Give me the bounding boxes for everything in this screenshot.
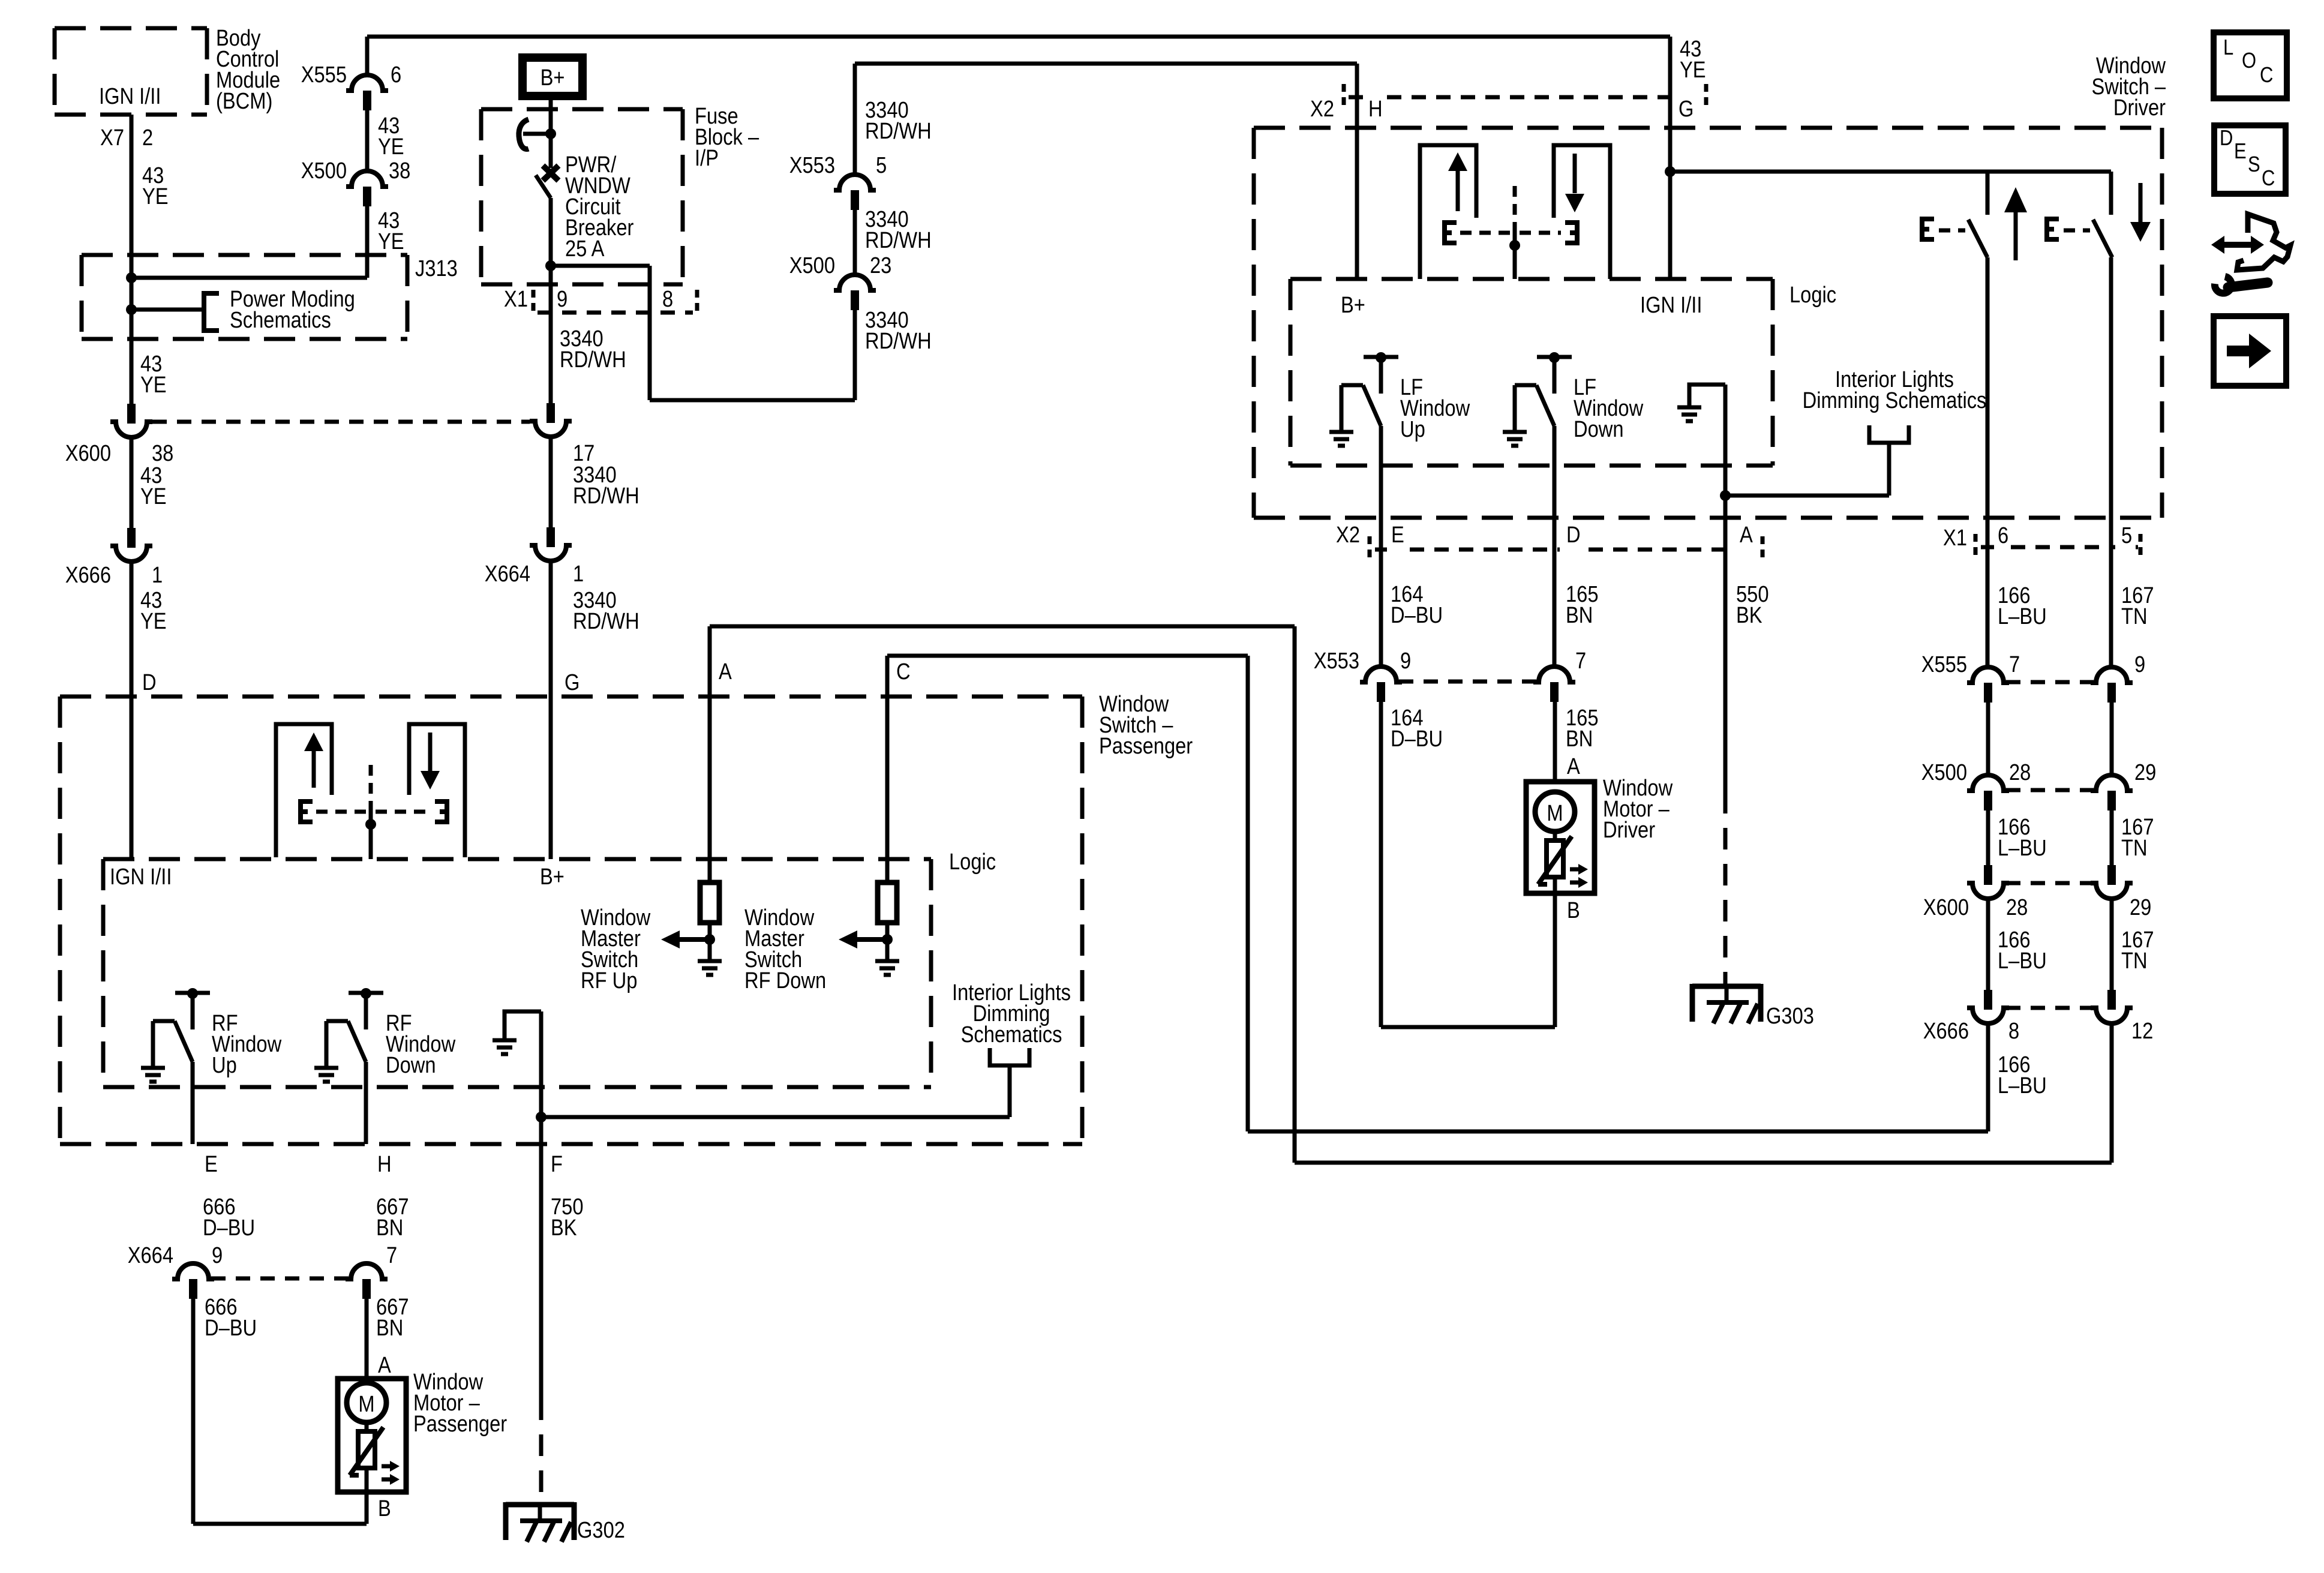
wire: 750 BK to G302 <box>539 1144 544 1398</box>
svg-text:X664: X664 <box>128 1242 173 1268</box>
connector row X1 (driver) <box>1974 534 1978 560</box>
svg-text:TN: TN <box>2121 604 2148 629</box>
connector row X600 dashed line <box>2006 881 2094 885</box>
wire: 167 TN between X600 and X666 <box>2110 897 2114 990</box>
ground G303 <box>1692 984 1761 989</box>
svg-text:Schematics: Schematics <box>961 1022 1062 1047</box>
wire: breaker to X1 pin 9 <box>549 198 553 403</box>
linkage dashed line (driver) <box>1460 231 1510 235</box>
wire: down to passenger switch pin G <box>549 560 553 859</box>
svg-text:TN: TN <box>2121 948 2148 974</box>
connector X600 pin 17 <box>547 403 555 423</box>
wire: B+ into circuit breaker <box>549 100 553 168</box>
wire: pin H riser (3340 RD/WH) <box>1355 64 1359 279</box>
icon: adjust/repair hand with arrow and wrench <box>2237 214 2290 270</box>
linkage centre stub (driver) <box>1513 186 1517 229</box>
connector X666 pin 8 <box>1984 990 1992 1010</box>
motor: Window Motor - Passenger <box>338 1379 406 1492</box>
connector X553 pin 9 <box>1360 667 1402 682</box>
svg-text:H: H <box>377 1151 392 1177</box>
wire: 167 TN long run to passenger pin A <box>2110 1022 2114 1163</box>
svg-text:X555: X555 <box>301 62 347 88</box>
svg-text:Dimming Schematics: Dimming Schematics <box>1803 388 1987 413</box>
svg-text:A: A <box>1567 754 1580 779</box>
ground hook for driver logic IGN <box>1689 385 1725 407</box>
svg-text:X600: X600 <box>65 440 111 466</box>
wire: top bus 43 YE <box>367 35 1670 39</box>
up arrow (driver) <box>1456 170 1460 211</box>
connector X500 pin 28 <box>1967 775 2009 791</box>
svg-text:D–BU: D–BU <box>203 1215 255 1241</box>
svg-text:B+: B+ <box>540 864 565 890</box>
junction dot to interior lights dimming <box>536 1112 547 1122</box>
junction dot to fuse pin 8 <box>545 260 556 271</box>
wire: 43 YE between X600 and X666 <box>130 436 134 528</box>
svg-text:X500: X500 <box>1921 760 1967 785</box>
svg-text:D–BU: D–BU <box>205 1315 257 1341</box>
contact paddle up (driver) <box>1420 145 1476 279</box>
linkage bracket E (passenger) <box>301 801 313 822</box>
wire: 43 YE down to passenger switch pin D <box>130 560 134 859</box>
svg-text:X664: X664 <box>485 561 530 587</box>
connector row X500 dashed line <box>2006 788 2094 792</box>
svg-text:A: A <box>1740 522 1753 548</box>
svg-text:IGN I/II: IGN I/II <box>99 83 161 109</box>
svg-text:Logic: Logic <box>1789 282 1836 308</box>
motor: Window Motor - Driver <box>1526 782 1595 893</box>
svg-text:M: M <box>358 1391 374 1417</box>
connector X600 pin 38 <box>127 404 136 424</box>
wire: branch to up/down switches <box>1670 170 2111 174</box>
svg-text:G: G <box>565 670 580 695</box>
svg-text:O: O <box>2242 49 2256 73</box>
wire: pin C riser to logic <box>885 656 890 882</box>
svg-text:9: 9 <box>557 286 568 312</box>
svg-text:Up: Up <box>212 1052 237 1078</box>
wire: 166 L-BU long run to passenger pin C <box>1986 1022 1990 1131</box>
connector X555 pin 9 <box>2091 667 2133 683</box>
linkage bracket reversed-E (passenger) <box>435 801 447 822</box>
connector row X2 top <box>1342 84 1346 110</box>
svg-text:E: E <box>2234 140 2247 164</box>
svg-text:IGN I/II: IGN I/II <box>110 864 172 890</box>
svg-text:YE: YE <box>142 184 169 209</box>
svg-text:E: E <box>1391 522 1404 548</box>
svg-text:L–BU: L–BU <box>1998 835 2047 861</box>
wire: branch to Power Moding Schematics <box>131 308 203 312</box>
wire: RF down switch to pin H <box>364 1062 368 1144</box>
svg-text:5: 5 <box>876 152 887 178</box>
linkage centre stub (passenger) <box>369 765 373 808</box>
svg-text:Up: Up <box>1400 416 1425 442</box>
wire: 666 D-BU loop to motor B <box>191 1298 196 1524</box>
up arrow (passenger) <box>312 749 316 788</box>
svg-text:YE: YE <box>140 372 167 398</box>
svg-text:C: C <box>2260 64 2273 88</box>
connector X500 pin 29 <box>2091 775 2133 791</box>
connector X600 pin 29 <box>2107 865 2116 885</box>
connector X600 pin 28 <box>1984 865 1992 885</box>
svg-text:38: 38 <box>389 158 410 184</box>
svg-text:RD/WH: RD/WH <box>573 483 639 509</box>
wire: BCM X7-2 down (43 YE) <box>130 115 134 404</box>
wire: 164 D-BU loop to motor B (driver) <box>1379 701 1383 1027</box>
svg-text:RD/WH: RD/WH <box>573 608 639 634</box>
resistor: window master switch RF up <box>700 882 719 923</box>
wire: passenger logic to pin F <box>539 1011 544 1144</box>
connector X664 pin 9 <box>172 1263 214 1279</box>
wire: down contact to X1 pin 5 <box>2109 257 2113 667</box>
ground: master switch RF down <box>875 959 899 963</box>
svg-text:X7: X7 <box>100 125 124 151</box>
svg-text:L–BU: L–BU <box>1998 604 2047 629</box>
svg-text:X500: X500 <box>789 253 835 278</box>
svg-text:H: H <box>1368 96 1383 122</box>
svg-text:5: 5 <box>2121 523 2132 548</box>
power feed box: B+ <box>523 58 582 96</box>
wire: riser to X553-5 and across to driver switch H <box>853 64 857 175</box>
svg-text:X2: X2 <box>1310 96 1334 122</box>
logic box: driver switch Logic <box>1290 277 1773 281</box>
svg-text:(BCM): (BCM) <box>216 88 272 114</box>
wire: 166 L-BU between X600 and X666 <box>1986 897 1990 990</box>
svg-text:G: G <box>1679 96 1694 122</box>
svg-text:RD/WH: RD/WH <box>865 227 932 253</box>
junction dot at breaker top <box>545 128 556 139</box>
contact paddle up (passenger) <box>276 724 332 857</box>
wire: to interior lights bracket (driver) <box>1725 494 1889 498</box>
resistor: window master switch RF down <box>878 882 897 923</box>
svg-text:B: B <box>378 1496 391 1521</box>
linkage E bracket for down contact <box>2047 219 2059 239</box>
svg-text:L: L <box>2223 36 2233 60</box>
junction dot to Power Moding bracket <box>126 304 137 315</box>
svg-text:X2: X2 <box>1336 522 1360 548</box>
wire: branch to pin 8 and over to X500-23 <box>551 264 650 268</box>
contact paddle down (driver) <box>1554 145 1610 279</box>
svg-text:L–BU: L–BU <box>1998 948 2047 974</box>
svg-text:Passenger: Passenger <box>413 1411 507 1437</box>
svg-text:7: 7 <box>1575 648 1586 674</box>
circuit breaker blade <box>536 175 551 198</box>
svg-text:BN: BN <box>1566 602 1593 628</box>
svg-text:YE: YE <box>140 608 167 634</box>
svg-text:29: 29 <box>2134 760 2156 785</box>
connector row X553 dashed line <box>1399 680 1536 684</box>
svg-text:YE: YE <box>378 134 404 160</box>
bracket: interior lights dimming (driver) <box>1869 425 1909 443</box>
svg-text:X553: X553 <box>789 152 835 178</box>
icon: continuation arrow box <box>2214 316 2286 386</box>
svg-text:B: B <box>1567 897 1580 923</box>
wire: 550 BK dashed to G303 <box>1724 792 1728 986</box>
up arrow (driver switch action) <box>2014 211 2018 260</box>
wire: 166 L-BU between X555 and X500 <box>1986 702 1990 775</box>
connector X555 pin 6 <box>346 75 388 91</box>
svg-text:YE: YE <box>140 484 167 509</box>
connector row X1 (fuse block) brackets <box>532 290 536 316</box>
wire: 167 TN between X555 and X500 <box>2110 702 2114 775</box>
connector X555 pin 7 <box>1967 667 2009 683</box>
ground hook for passenger logic B+ <box>505 1011 541 1040</box>
svg-text:A: A <box>378 1352 391 1378</box>
svg-text:25 A: 25 A <box>565 236 605 262</box>
down arrow (driver) <box>1573 154 1577 193</box>
svg-text:RD/WH: RD/WH <box>865 118 932 144</box>
svg-text:X1: X1 <box>504 286 528 312</box>
svg-text:G303: G303 <box>1766 1003 1814 1029</box>
svg-text:Down: Down <box>1574 416 1624 442</box>
svg-text:D: D <box>1566 522 1581 548</box>
svg-text:C: C <box>896 659 911 685</box>
contact paddle down (passenger) <box>409 724 465 857</box>
junction dot on linkage centre (driver) <box>1509 240 1520 251</box>
svg-text:Passenger: Passenger <box>1099 733 1193 759</box>
svg-text:D–BU: D–BU <box>1391 726 1443 752</box>
wire: RF up switch to pin E <box>191 1062 195 1144</box>
svg-text:BK: BK <box>1736 602 1762 628</box>
wire: 43 YE into driver switch pin G <box>1668 37 1673 279</box>
wire: 165 BN to motor A (driver) <box>1553 701 1557 782</box>
svg-text:12: 12 <box>2131 1018 2153 1044</box>
circuit breaker self-reset X mark <box>543 166 559 181</box>
svg-text:Driver: Driver <box>1603 817 1655 843</box>
wire: between X553-5 and X500-23 <box>853 209 857 275</box>
connector X500 pin 38 <box>346 171 388 187</box>
svg-text:1: 1 <box>152 562 163 588</box>
svg-text:X500: X500 <box>301 158 347 184</box>
linkage E bracket for up contact <box>1922 219 1934 239</box>
wire: LF up switch to pin E <box>1379 426 1383 667</box>
connector X666 pin 12 <box>2107 990 2116 1010</box>
wire: pin A riser to logic <box>708 626 712 882</box>
junction dot on 43 YE at J313 <box>126 272 137 283</box>
svg-text:1: 1 <box>573 561 584 587</box>
svg-text:B+: B+ <box>1341 292 1365 318</box>
svg-text:YE: YE <box>1680 57 1706 83</box>
svg-text:X666: X666 <box>65 562 111 588</box>
ground: master switch RF up <box>698 959 722 963</box>
connector X553 pin 7 <box>1533 667 1575 682</box>
svg-text:S: S <box>2248 153 2260 177</box>
connector X664 pin 7 <box>346 1263 388 1279</box>
svg-text:D: D <box>142 670 157 695</box>
svg-text:E: E <box>205 1151 218 1177</box>
svg-text:BN: BN <box>376 1215 403 1241</box>
svg-text:I/P: I/P <box>695 145 719 171</box>
svg-text:29: 29 <box>2130 894 2151 920</box>
svg-text:7: 7 <box>2009 652 2020 677</box>
module box: Body Control Module (BCM), IGN I/II <box>55 26 207 31</box>
connector X664 pin 1 <box>547 527 555 547</box>
switch: RF Window Up <box>175 991 210 995</box>
arrow + junction: master switch RF up output <box>704 934 715 945</box>
connector X666 pin 1 <box>127 528 136 548</box>
down arrow (passenger) <box>428 733 433 773</box>
wire: to interior lights dimming bracket <box>541 1115 1010 1119</box>
svg-text:7: 7 <box>386 1242 397 1268</box>
switch blade: driver window down contact <box>2109 172 2113 215</box>
wire: 43 YE between X555 and X500 <box>365 110 370 171</box>
bracket: Power Moding Schematics <box>204 293 219 331</box>
bracket: interior lights dimming (passenger) <box>990 1048 1029 1065</box>
wire: 3340 RD/WH between X600-17 and X664-1 <box>549 436 553 527</box>
svg-text:X553: X553 <box>1314 648 1359 674</box>
down arrow (driver switch action) <box>2139 183 2143 223</box>
connector row X1 dashed line <box>538 311 693 315</box>
wire: 667 BN to motor A <box>365 1298 369 1379</box>
svg-text:8: 8 <box>662 286 673 312</box>
svg-text:RF Down: RF Down <box>744 968 826 993</box>
svg-text:X600: X600 <box>1923 894 1969 920</box>
svg-text:Driver: Driver <box>2113 95 2166 121</box>
svg-text:IGN I/II: IGN I/II <box>1640 292 1702 318</box>
arrow + junction: master switch RF down output <box>882 934 893 945</box>
svg-text:9: 9 <box>212 1242 223 1268</box>
wire: driver logic to pin A (550 BK) <box>1724 385 1728 792</box>
connector row X555 dashed line <box>2006 680 2094 685</box>
wire: 43 YE into J313 <box>365 206 370 278</box>
svg-text:RD/WH: RD/WH <box>560 347 626 373</box>
circuit breaker CB hook <box>523 132 551 136</box>
wire: 167 TN between X500 and X600 <box>2110 810 2114 865</box>
svg-text:BN: BN <box>1566 726 1593 752</box>
svg-text:D: D <box>2220 127 2233 151</box>
component box: Window Switch - Driver <box>1254 126 2162 130</box>
switch blade: driver window up contact <box>1986 172 1990 215</box>
svg-text:B+: B+ <box>541 65 565 91</box>
svg-text:F: F <box>551 1151 563 1177</box>
svg-text:9: 9 <box>2134 652 2145 677</box>
svg-text:X555: X555 <box>1921 652 1967 677</box>
switch: LF Window Down <box>1537 355 1572 359</box>
svg-text:J313: J313 <box>415 256 458 281</box>
wire: 166 L-BU between X500 and X600 <box>1986 810 1990 865</box>
svg-text:RF Up: RF Up <box>581 968 637 993</box>
component box: Fuse Block - I/P <box>481 107 683 112</box>
ptc arrows (driver motor) <box>1570 867 1580 872</box>
svg-text:Logic: Logic <box>949 849 996 875</box>
linkage dashed line (passenger) <box>316 810 366 814</box>
icon: DESC box <box>2214 125 2286 194</box>
wire: LF down switch to pin D <box>1553 426 1557 667</box>
switch: RF Window Down <box>349 991 383 995</box>
svg-text:D–BU: D–BU <box>1391 602 1443 628</box>
junction dot on G wire <box>1665 166 1676 177</box>
svg-text:28: 28 <box>2006 894 2028 920</box>
icon: LOC box <box>2214 32 2287 98</box>
svg-text:X666: X666 <box>1923 1018 1969 1044</box>
svg-text:M: M <box>1547 800 1563 826</box>
svg-text:Down: Down <box>386 1052 436 1078</box>
svg-text:A: A <box>719 659 732 685</box>
svg-text:6: 6 <box>1998 523 2008 548</box>
svg-text:X1: X1 <box>1943 525 1967 551</box>
switch: LF Window Up <box>1364 355 1398 359</box>
svg-text:8: 8 <box>2008 1018 2019 1044</box>
connector row X664 dashed line <box>211 1277 349 1281</box>
svg-text:BK: BK <box>551 1215 577 1241</box>
svg-text:C: C <box>2262 167 2275 191</box>
connector row X600 dashed link 38-17 <box>152 420 530 424</box>
component box: Window Switch - Passenger <box>60 695 1082 699</box>
svg-text:Schematics: Schematics <box>230 307 331 333</box>
svg-text:TN: TN <box>2121 835 2148 861</box>
svg-text:6: 6 <box>391 62 401 88</box>
junction dot on linkage centre (passenger) <box>365 819 376 830</box>
junction dot to interior lights dimming (driver) <box>1720 490 1731 501</box>
svg-text:9: 9 <box>1400 648 1411 674</box>
svg-text:G302: G302 <box>577 1517 625 1543</box>
connector X553 pin 5 <box>834 175 876 190</box>
module box: J313 splice pack <box>82 253 407 257</box>
connector row X666 dashed line <box>2006 1006 2094 1010</box>
linkage bracket reversed-E (driver) <box>1565 223 1577 243</box>
connector row X2 bottom <box>1368 536 1372 563</box>
svg-text:BN: BN <box>376 1315 403 1341</box>
svg-text:2: 2 <box>142 125 153 151</box>
connector X500 pin 23 <box>834 275 876 290</box>
linkage bracket E (driver) <box>1445 223 1457 243</box>
ptc arrows (passenger motor) <box>382 1464 391 1469</box>
svg-text:L–BU: L–BU <box>1998 1073 2047 1098</box>
svg-text:RD/WH: RD/WH <box>865 328 932 354</box>
svg-text:23: 23 <box>870 253 891 278</box>
svg-text:YE: YE <box>378 229 404 254</box>
svg-text:28: 28 <box>2009 760 2031 785</box>
logic box: passenger switch Logic <box>103 857 931 861</box>
ground G302 <box>506 1502 574 1508</box>
wire: up contact to X1 pin 6 <box>1986 257 1990 667</box>
